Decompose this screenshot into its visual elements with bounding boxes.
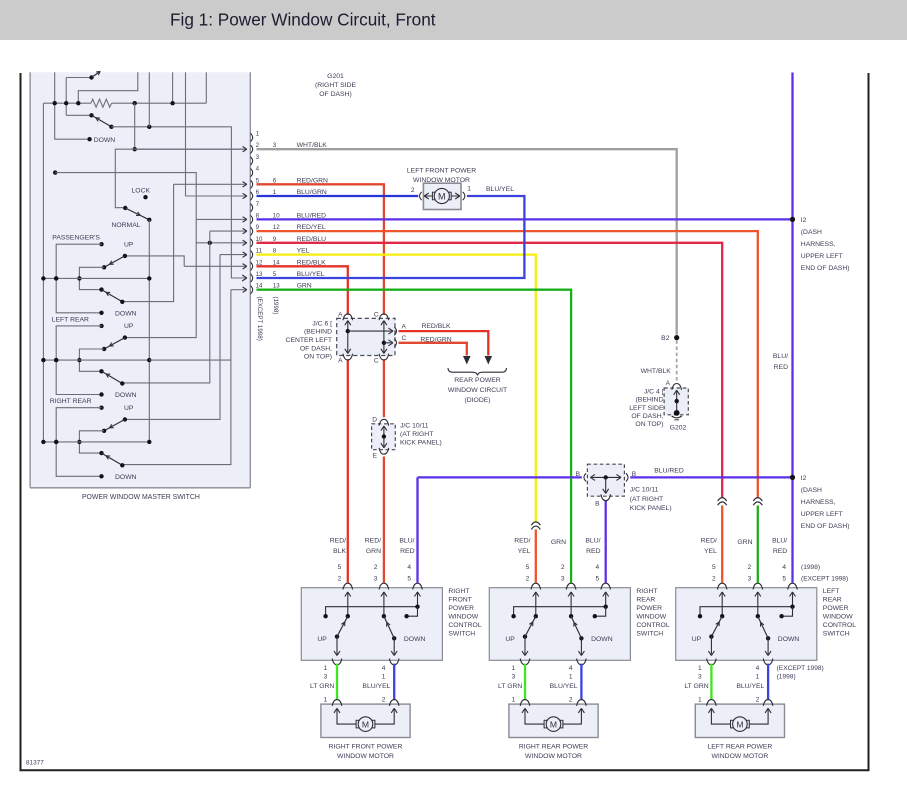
- wire YEL pin11 to splice: [257, 255, 536, 522]
- svg-text:3: 3: [256, 154, 260, 161]
- svg-text:A: A: [402, 323, 407, 330]
- wire pin 4 stub to rear feeds: [53, 170, 57, 174]
- svg-text:LEFT REAR POWER: LEFT REAR POWER: [707, 744, 772, 751]
- J/C 10/11 B internal arrows: [592, 476, 621, 478]
- svg-text:D: D: [372, 417, 377, 424]
- down switch blade: [102, 290, 123, 302]
- J/C 6 internal bus A: [347, 321, 349, 353]
- svg-text:UP: UP: [692, 636, 702, 643]
- svg-text:3: 3: [512, 674, 516, 681]
- wire normal contact down the common chain: [148, 220, 150, 443]
- header bar: [0, 0, 907, 40]
- svg-text:RIGHT FRONT POWER: RIGHT FRONT POWER: [329, 744, 403, 751]
- svg-text:5: 5: [338, 564, 342, 571]
- svg-text:Fig 1: Power Window Circuit, F: Fig 1: Power Window Circuit, Front: [170, 10, 436, 30]
- junction dot: [147, 358, 151, 362]
- svg-text:LEFT REAR: LEFT REAR: [52, 316, 89, 323]
- svg-text:(AT RIGHT: (AT RIGHT: [630, 496, 663, 503]
- right rear power window control switch: [489, 588, 630, 661]
- J/C 10/11 B pin bottom: [601, 494, 611, 500]
- svg-text:(BEHIND: (BEHIND: [636, 397, 664, 404]
- wire rail tap to box top: [172, 72, 174, 103]
- lower contact: [99, 287, 103, 291]
- svg-text:UP: UP: [124, 323, 134, 330]
- svg-text:RIGHT REAR POWER: RIGHT REAR POWER: [519, 744, 588, 751]
- wire driver switch output to pin 13 riser: [111, 127, 246, 278]
- wire BLU/RED horizontal through J/C10-11: [418, 476, 582, 478]
- splice break RED/YEL: [753, 498, 762, 501]
- svg-text:LOCK: LOCK: [132, 188, 151, 195]
- junction dot: [133, 147, 137, 151]
- svg-text:BLU/YEL: BLU/YEL: [362, 683, 390, 690]
- svg-text:ON TOP): ON TOP): [304, 354, 332, 361]
- junction dot: [147, 125, 151, 129]
- svg-text:RIGHT REAR: RIGHT REAR: [50, 398, 92, 405]
- svg-text:NORMAL: NORMAL: [111, 222, 140, 229]
- svg-text:ON TOP): ON TOP): [635, 421, 663, 428]
- svg-text:LT GRN: LT GRN: [684, 683, 708, 690]
- wire GRN left-rear switch feed below splice: [757, 506, 759, 583]
- pin 2 connector: [251, 145, 253, 153]
- svg-text:WINDOW MOTOR: WINDOW MOTOR: [337, 753, 394, 760]
- wire BLU/RED branch to right-front switch: [416, 477, 418, 582]
- svg-text:I2: I2: [801, 217, 807, 224]
- pin 4 connector: [251, 169, 253, 177]
- svg-text:J/C 4 [: J/C 4 [: [644, 389, 664, 396]
- wire pin 11 riser to right-rear up contact: [125, 255, 220, 420]
- pin 9 connector: [251, 227, 253, 235]
- svg-text:REAR POWER: REAR POWER: [454, 377, 501, 384]
- svg-text:RED/: RED/: [365, 537, 381, 544]
- junction dot: [64, 101, 68, 105]
- wire BLU/YEL pin13 to LF motor loop: [257, 196, 525, 278]
- svg-text:4: 4: [596, 564, 600, 571]
- svg-text:4: 4: [256, 166, 260, 173]
- lock switch pivot: [123, 206, 127, 210]
- svg-text:POWER: POWER: [448, 605, 474, 612]
- svg-text:LEFT FRONT POWER: LEFT FRONT POWER: [407, 168, 476, 175]
- svg-text:(RIGHT SIDE: (RIGHT SIDE: [315, 82, 357, 89]
- svg-text:RED: RED: [774, 364, 788, 371]
- svg-text:2: 2: [411, 187, 415, 194]
- pin 5 connector: [251, 180, 253, 188]
- svg-text:3: 3: [324, 674, 328, 681]
- wire WHT/BLK hidden section (dashed): [676, 340, 678, 382]
- pin 8 connector: [251, 215, 253, 223]
- node DOWN: [99, 474, 103, 478]
- feed rail: [43, 277, 149, 279]
- motor pin 1: [463, 192, 465, 200]
- node B2: [674, 335, 679, 340]
- svg-text:M: M: [362, 720, 369, 730]
- resistor feed rail: [43, 102, 91, 104]
- svg-text:3: 3: [698, 674, 702, 681]
- svg-text:UP: UP: [317, 636, 327, 643]
- J/C 6 exit A arrow: [348, 330, 392, 332]
- svg-text:UP: UP: [505, 636, 515, 643]
- J/C 6 pin A bottom: [343, 354, 353, 360]
- svg-text:(EXCEPT 1998): (EXCEPT 1998): [801, 576, 848, 583]
- svg-text:BLU/YEL: BLU/YEL: [486, 186, 514, 193]
- svg-text:2: 2: [756, 696, 760, 703]
- svg-text:4: 4: [756, 665, 760, 672]
- junction dot: [54, 276, 58, 280]
- svg-text:B: B: [576, 471, 581, 478]
- wire pin 9 riser to left-rear blade end: [121, 231, 210, 383]
- svg-text:WHT/BLK: WHT/BLK: [641, 368, 672, 375]
- wire ignition feed from box top: [55, 72, 90, 139]
- wire RED/BLK pin12 to J/C6 A: [257, 266, 348, 315]
- node I2 lower: [790, 475, 795, 480]
- J/C 4 internal bus: [676, 391, 678, 413]
- junction dot: [147, 276, 151, 280]
- svg-text:BLU/RED: BLU/RED: [654, 468, 684, 475]
- svg-text:4: 4: [782, 564, 786, 571]
- svg-text:RED/: RED/: [514, 537, 530, 544]
- svg-text:2: 2: [748, 564, 752, 571]
- svg-text:B: B: [632, 471, 637, 478]
- svg-text:DOWN: DOWN: [94, 137, 116, 144]
- svg-text:DOWN: DOWN: [115, 392, 137, 399]
- node UP: [99, 406, 103, 410]
- drawing frame border: [20, 73, 22, 770]
- svg-text:LT GRN: LT GRN: [498, 683, 522, 690]
- pin 10 connector: [251, 239, 253, 247]
- svg-text:3: 3: [374, 576, 378, 583]
- svg-text:1: 1: [756, 674, 760, 681]
- svg-text:1: 1: [467, 185, 471, 192]
- svg-text:BLU/: BLU/: [399, 537, 414, 544]
- J/C 10/11 internal bus: [383, 426, 385, 447]
- junction dot: [77, 440, 81, 444]
- svg-text:(1998): (1998): [272, 297, 279, 315]
- up switch blade: [104, 419, 125, 430]
- splice break YEL: [531, 522, 540, 525]
- svg-text:A: A: [338, 357, 343, 364]
- junction dot: [208, 241, 212, 245]
- svg-text:POWER: POWER: [636, 605, 662, 612]
- svg-text:(DASH: (DASH: [801, 487, 822, 494]
- svg-text:RED: RED: [586, 548, 600, 555]
- node UP: [99, 324, 103, 328]
- wire BLU/RED to right-rear switch from J/C10-11: [605, 501, 607, 583]
- svg-text:LEFT: LEFT: [823, 588, 840, 595]
- splice break RED/BLU: [718, 498, 727, 501]
- J/C 10/11 pin E: [379, 448, 389, 454]
- svg-text:RED/BLK: RED/BLK: [421, 323, 451, 330]
- svg-text:(DIODE): (DIODE): [464, 397, 490, 404]
- node I2 upper: [790, 217, 795, 222]
- junction dot: [41, 440, 45, 444]
- left rear power window control switch: [676, 588, 817, 661]
- J/C 10/11 pin D: [379, 419, 389, 425]
- feed rail: [43, 359, 149, 361]
- lower contact: [99, 369, 103, 373]
- svg-text:A: A: [338, 311, 343, 318]
- svg-text:WINDOW CIRCUIT: WINDOW CIRCUIT: [448, 387, 507, 394]
- svg-text:DOWN: DOWN: [591, 636, 613, 643]
- svg-text:M: M: [550, 720, 557, 730]
- svg-text:PASSENGER'S: PASSENGER'S: [52, 235, 100, 242]
- svg-text:DOWN: DOWN: [404, 636, 426, 643]
- wire RED/GRN pin5 to J/C6 C: [257, 184, 384, 315]
- svg-text:FRONT: FRONT: [448, 596, 471, 603]
- svg-text:I2: I2: [801, 475, 807, 482]
- diode branch arrow left: [463, 356, 471, 365]
- junction dot: [147, 440, 151, 444]
- svg-text:KICK PANEL): KICK PANEL): [400, 440, 442, 447]
- svg-text:1: 1: [324, 665, 328, 672]
- svg-text:GRN: GRN: [551, 539, 566, 546]
- svg-text:HARNESS,: HARNESS,: [801, 241, 836, 248]
- junction connector J/C 10/11 (B) box: [587, 464, 624, 496]
- right front power window control switch: [301, 588, 442, 661]
- junction connector J/C 10/11 (D-E) box: [372, 424, 396, 450]
- blade end node: [120, 463, 124, 467]
- up switch blade: [104, 338, 125, 349]
- svg-text:UPPER LEFT: UPPER LEFT: [801, 511, 843, 518]
- junction dot: [133, 101, 137, 105]
- pin 12 connector: [251, 262, 253, 270]
- wire pin 5 line: [174, 183, 246, 185]
- svg-text:2: 2: [382, 696, 386, 703]
- svg-text:1: 1: [512, 696, 516, 703]
- svg-text:SWITCH: SWITCH: [823, 631, 850, 638]
- svg-text:RIGHT: RIGHT: [448, 588, 469, 595]
- svg-text:3: 3: [561, 576, 565, 583]
- svg-text:YEL: YEL: [704, 548, 717, 555]
- wire pivot to rail riser: [79, 431, 104, 453]
- wire RED/GRN diode branch: [399, 343, 467, 356]
- svg-text:5: 5: [782, 576, 786, 583]
- svg-text:WINDOW MOTOR: WINDOW MOTOR: [525, 753, 582, 760]
- left front power window motor box: [423, 183, 461, 209]
- svg-text:C: C: [374, 357, 379, 364]
- lower contact: [99, 451, 103, 455]
- node DOWN: [99, 311, 103, 315]
- svg-text:END OF DASH): END OF DASH): [801, 265, 850, 272]
- junction dot: [54, 440, 58, 444]
- svg-text:RED: RED: [400, 548, 414, 555]
- junction dot: [54, 358, 58, 362]
- wire branch to pin 8: [196, 218, 246, 220]
- J/C 4 pin A: [672, 384, 682, 390]
- J/C 10/11 B pin left: [584, 473, 586, 481]
- svg-text:3: 3: [748, 576, 752, 583]
- svg-text:GRN: GRN: [366, 548, 381, 555]
- wire pin 2 line to lock switch: [115, 149, 246, 208]
- svg-text:RED/GRN: RED/GRN: [420, 336, 451, 343]
- wire pivot to rail riser: [79, 267, 104, 289]
- svg-text:BLU/: BLU/: [773, 353, 788, 360]
- svg-text:DOWN: DOWN: [115, 474, 137, 481]
- svg-text:BLU/YEL: BLU/YEL: [736, 683, 764, 690]
- wire pin 12 from passenger up contact: [125, 256, 184, 266]
- wire RED/YEL pin9 down right side: [257, 231, 758, 497]
- svg-text:HARNESS,: HARNESS,: [801, 499, 836, 506]
- svg-text:KICK PANEL): KICK PANEL): [630, 505, 672, 512]
- svg-text:DOWN: DOWN: [115, 310, 137, 317]
- svg-text:J/C 6 [: J/C 6 [: [312, 320, 332, 327]
- svg-text:(BEHIND: (BEHIND: [304, 329, 332, 336]
- svg-text:E: E: [373, 452, 378, 459]
- svg-text:CENTER LEFT: CENTER LEFT: [286, 337, 332, 344]
- svg-text:RED/: RED/: [701, 537, 717, 544]
- svg-text:1: 1: [698, 665, 702, 672]
- brace under diode arrows: [448, 368, 507, 375]
- svg-text:81377: 81377: [26, 760, 44, 767]
- svg-text:BLU/YEL: BLU/YEL: [550, 683, 578, 690]
- svg-text:POWER WINDOW MASTER SWITCH: POWER WINDOW MASTER SWITCH: [82, 494, 200, 501]
- svg-text:2: 2: [374, 564, 378, 571]
- wire pin 14 riser to right-rear blade end: [121, 290, 231, 465]
- blade end node: [120, 300, 124, 304]
- svg-text:OF DASH,: OF DASH,: [300, 345, 332, 352]
- wire BLU/RED main vertical: [791, 73, 793, 583]
- wire WHT/BLK pin2 to B2: [257, 149, 677, 335]
- pin 13 arrowhead: [242, 275, 247, 278]
- svg-text:2: 2: [338, 576, 342, 583]
- svg-text:WINDOW MOTOR: WINDOW MOTOR: [711, 753, 768, 760]
- wire pivot to rail riser: [79, 349, 104, 371]
- junction dot: [76, 101, 80, 105]
- wire pin 5 riser to passenger blade end: [122, 184, 173, 301]
- svg-text:J/C 10/11: J/C 10/11: [400, 422, 429, 429]
- svg-text:C: C: [374, 311, 379, 318]
- svg-text:G202: G202: [670, 425, 687, 432]
- svg-text:1: 1: [698, 696, 702, 703]
- wire rail tap down to pin 2 line: [134, 103, 136, 149]
- J/C 6 exit C arrow: [384, 342, 392, 344]
- svg-text:4: 4: [569, 665, 573, 672]
- wire RED/BLK below J/C6 to switch: [347, 359, 349, 583]
- pivot contact: [102, 265, 106, 269]
- svg-text:LEFT SIDE: LEFT SIDE: [629, 405, 664, 412]
- svg-text:OF DASH): OF DASH): [319, 91, 351, 98]
- switch driver lower blade: [89, 113, 93, 117]
- svg-text:(1998): (1998): [801, 564, 820, 571]
- wire resistor bridge over rail: [78, 72, 138, 103]
- node DOWN: [99, 392, 103, 396]
- pin 7 connector: [251, 204, 253, 212]
- junction dot: [41, 276, 45, 280]
- wire RED/BLU pin10 down right side: [257, 243, 723, 498]
- motor M symbol: [425, 195, 433, 197]
- wire up contact to common: [56, 326, 101, 395]
- svg-text:GRN: GRN: [737, 539, 752, 546]
- wire RED/YEL right-rear switch feed below splice: [535, 530, 537, 583]
- wire left-rear rail extension: [149, 359, 231, 361]
- pivot contact: [102, 429, 106, 433]
- svg-text:1: 1: [569, 674, 573, 681]
- blade end node: [120, 381, 124, 385]
- svg-text:REAR: REAR: [636, 596, 655, 603]
- ground G202: [674, 410, 680, 416]
- wire up contact to common: [56, 408, 101, 477]
- junction dot: [41, 358, 45, 362]
- svg-text:5: 5: [407, 576, 411, 583]
- J/C 6 pin C top: [379, 314, 389, 320]
- svg-text:CONTROL: CONTROL: [448, 622, 481, 629]
- svg-text:RED: RED: [773, 548, 787, 555]
- svg-text:YEL: YEL: [518, 548, 531, 555]
- svg-text:J/C 10/11: J/C 10/11: [630, 487, 659, 494]
- J/C 6 pin A top: [343, 314, 353, 320]
- svg-text:END OF DASH): END OF DASH): [801, 523, 850, 530]
- node LOCK: [143, 195, 147, 199]
- junction dot: [77, 276, 81, 280]
- svg-text:UP: UP: [124, 405, 134, 412]
- svg-text:2: 2: [526, 576, 530, 583]
- wire rail-end riser to box top: [205, 72, 207, 103]
- pin 11 connector: [251, 251, 253, 259]
- svg-text:5: 5: [712, 564, 716, 571]
- svg-text:1: 1: [256, 131, 260, 138]
- svg-text:LT GRN: LT GRN: [310, 683, 334, 690]
- pin 6 connector: [251, 192, 253, 200]
- svg-text:WINDOW MOTOR: WINDOW MOTOR: [413, 177, 470, 184]
- svg-text:BLU/: BLU/: [585, 537, 600, 544]
- svg-text:B: B: [595, 501, 600, 508]
- J/C 6 pin C bottom: [379, 354, 389, 360]
- pin 13 connector: [251, 274, 253, 282]
- svg-text:C: C: [402, 335, 407, 342]
- junction dot: [54, 440, 58, 444]
- junction connector J/C 6 box: [337, 318, 395, 355]
- down switch blade: [102, 453, 123, 465]
- svg-text:7: 7: [256, 201, 260, 208]
- J/C 6 internal bus C: [383, 321, 385, 353]
- svg-text:(EXCEPT 1998): (EXCEPT 1998): [256, 297, 263, 341]
- svg-text:(AT RIGHT: (AT RIGHT: [400, 431, 433, 438]
- svg-text:WINDOW: WINDOW: [823, 614, 853, 621]
- wire pin 6 from box top: [185, 72, 187, 196]
- svg-text:WINDOW: WINDOW: [448, 614, 478, 621]
- svg-text:REAR: REAR: [823, 596, 842, 603]
- svg-text:G201: G201: [327, 73, 344, 80]
- svg-text:2: 2: [712, 576, 716, 583]
- svg-text:1: 1: [512, 665, 516, 672]
- svg-text:RIGHT: RIGHT: [636, 588, 657, 595]
- wire riser to driver switch contacts: [65, 78, 67, 116]
- svg-text:5: 5: [596, 576, 600, 583]
- wire RED/GRN below J/C6: [383, 359, 385, 417]
- lock switch blade: [125, 208, 149, 220]
- wire BLU/GRN pin6 to LF motor: [257, 195, 419, 197]
- svg-text:UPPER LEFT: UPPER LEFT: [801, 253, 843, 260]
- svg-text:BLU/: BLU/: [772, 537, 787, 544]
- svg-text:WINDOW: WINDOW: [636, 614, 666, 621]
- svg-text:DOWN: DOWN: [778, 636, 800, 643]
- up contact: [123, 417, 127, 421]
- switch driver auto-down upper blade: [89, 75, 93, 79]
- up switch blade: [104, 256, 125, 267]
- power window master switch box: [30, 72, 250, 488]
- svg-text:B2: B2: [661, 335, 670, 342]
- svg-text:(DASH: (DASH: [801, 229, 822, 236]
- svg-text:BLK: BLK: [333, 548, 346, 555]
- svg-text:OF DASH,: OF DASH,: [631, 413, 663, 420]
- svg-text:M: M: [736, 720, 743, 730]
- pin 1 connector: [251, 133, 253, 141]
- svg-text:A: A: [666, 380, 671, 387]
- svg-text:POWER: POWER: [823, 605, 849, 612]
- wire RED/YEL left-rear switch feed below splice: [721, 506, 723, 583]
- J/C 10/11 B pin right: [626, 473, 628, 481]
- wire RED/GRN below J/C10-11 to switch: [383, 457, 385, 583]
- up contact: [123, 254, 127, 258]
- wire up contact to common: [56, 244, 101, 313]
